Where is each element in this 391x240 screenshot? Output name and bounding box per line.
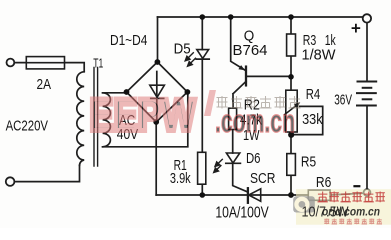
svg-text:orld.com.cn: orld.com.cn (322, 206, 380, 218)
svg-text:R4: R4 (306, 86, 321, 103)
svg-text:T1: T1 (93, 55, 103, 70)
svg-text:AC220V: AC220V (6, 117, 48, 134)
svg-text:D6: D6 (246, 150, 261, 167)
svg-text:R5: R5 (301, 154, 316, 171)
svg-text:.com.cn: .com.cn (215, 103, 295, 139)
svg-text:3.9k: 3.9k (170, 170, 191, 187)
svg-text:SCR: SCR (250, 170, 276, 187)
svg-text:D5: D5 (174, 41, 191, 58)
svg-text:1/8W: 1/8W (302, 47, 337, 64)
svg-text:R6: R6 (316, 174, 331, 191)
svg-text:33k: 33k (302, 111, 323, 128)
svg-text:B764: B764 (233, 42, 268, 59)
svg-text:2A: 2A (37, 76, 52, 93)
svg-text:EEPW: EEPW (90, 90, 196, 141)
svg-text:36V: 36V (334, 92, 352, 109)
svg-text:D1~D4: D1~D4 (110, 32, 147, 49)
svg-text:10A/100V: 10A/100V (215, 204, 269, 221)
